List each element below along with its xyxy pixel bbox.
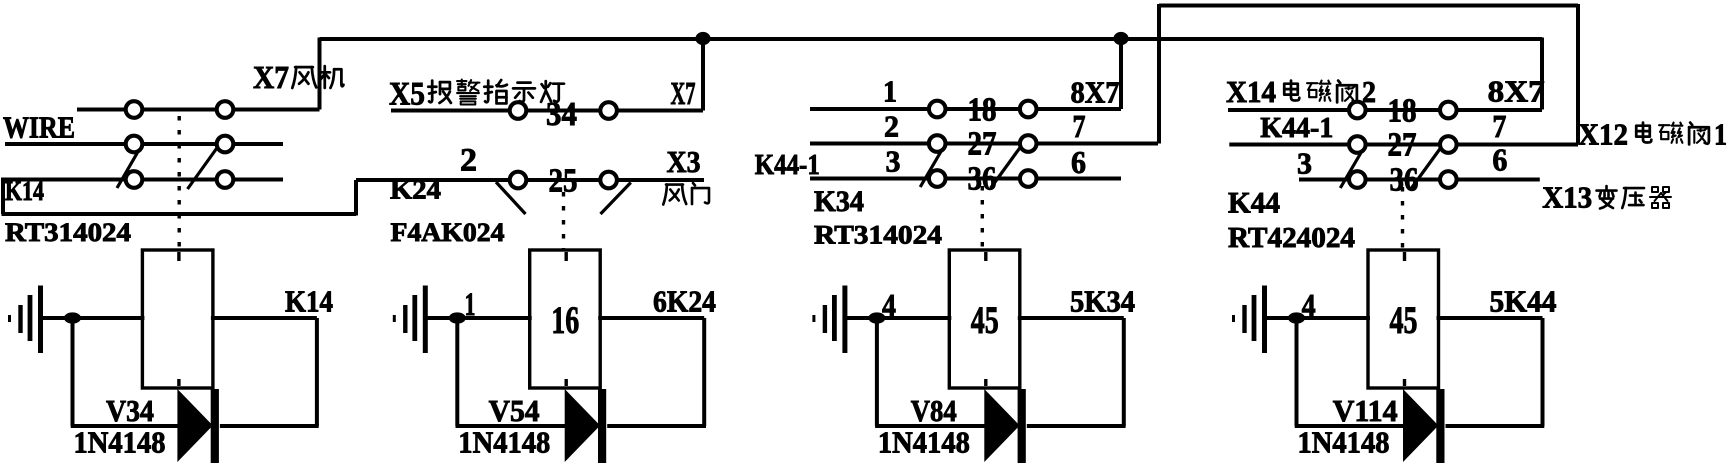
svg-text:1: 1 [1714, 117, 1727, 152]
svg-text:X14: X14 [1226, 74, 1276, 109]
wire K24 top row pin-to-pin [518, 109, 609, 113]
wire ground to coil K44 [1266, 316, 1371, 320]
linkage dashed K14 [177, 116, 180, 250]
wire K44 row2 right to upper bus [1456, 143, 1578, 147]
svg-text:1: 1 [465, 287, 476, 323]
contact pins K44 mid row [1349, 136, 1366, 153]
wire K44 row3 right open end [1456, 178, 1540, 182]
contact pins K24 bottom row [510, 172, 527, 189]
wire K44 mid row pin-to-pin [1357, 143, 1448, 147]
svg-text:K14: K14 [285, 284, 333, 319]
contact K14 movable slant col2 [188, 147, 219, 190]
wire bus-B left drop to K34 contact 27-18 row [1157, 4, 1161, 144]
wire K14 top row pin-to-pin [134, 108, 225, 112]
wire bottom K24 diode anode side [456, 424, 568, 428]
svg-text:2: 2 [460, 143, 477, 179]
wire bus-A drop to K24 contact row (X7) [701, 39, 705, 111]
coil top tick K24 [565, 252, 568, 261]
svg-text:1N4148: 1N4148 [74, 425, 166, 460]
wire right vertical K14 [315, 318, 319, 426]
svg-text:1: 1 [883, 74, 897, 109]
ground K34 [812, 315, 815, 322]
coil bottom tick K24 [565, 379, 568, 386]
svg-text:X12: X12 [1578, 117, 1628, 152]
wire ground to coil K14 [42, 316, 145, 320]
svg-text:3: 3 [886, 144, 901, 179]
svg-text:F4AK024: F4AK024 [391, 218, 505, 247]
relay coil K44 [1368, 250, 1439, 388]
svg-text:K24: K24 [390, 175, 441, 205]
junction node coil K44 left [1288, 312, 1305, 323]
svg-text:6: 6 [1492, 142, 1507, 178]
svg-text:5K44: 5K44 [1490, 284, 1557, 319]
contact pins K44 bot row [1349, 171, 1366, 188]
wire K34 bot row pin-to-pin [937, 177, 1028, 181]
svg-text:K44-1: K44-1 [755, 149, 820, 181]
svg-text:WIRE: WIRE [3, 110, 75, 145]
label damper (风门) [663, 185, 686, 205]
svg-text:1N4148: 1N4148 [1298, 425, 1390, 460]
svg-text:V34: V34 [106, 393, 154, 428]
wire right vertical K44 [1541, 318, 1545, 426]
wire coil K14 right to K14 [211, 316, 317, 320]
wire K34 row1 left [810, 107, 929, 111]
contact K24 movable slant col1 [496, 182, 526, 214]
coil bottom tick K34 [984, 379, 987, 386]
coil top tick K44 [1403, 252, 1406, 261]
contact K24 movable slant col2 [601, 183, 631, 215]
svg-text:34: 34 [546, 96, 577, 133]
wire bottom K14 diode cathode side [220, 424, 319, 428]
svg-text:8X7: 8X7 [1071, 75, 1120, 110]
wire K14 contact top row to bus [77, 108, 320, 112]
svg-text:K44-1: K44-1 [1260, 112, 1333, 144]
coil top tick K34 [984, 252, 987, 261]
wire coil K34 right to 5K34 [1018, 316, 1124, 320]
wire step up to K24 row [354, 180, 358, 216]
svg-text:X3: X3 [667, 144, 701, 179]
junction node coil K24 left [449, 312, 466, 323]
svg-text:RT314024: RT314024 [5, 218, 131, 247]
wire K44 top row pin-to-pin [1357, 108, 1448, 112]
wire K34 row3 left [810, 177, 929, 181]
wire main top bus net 8X7 [320, 37, 1543, 41]
svg-text:X13: X13 [1542, 180, 1592, 215]
linkage dashed K24 [562, 192, 565, 250]
contact pins K34 bot row [929, 170, 946, 187]
wire ground to coil K24 [426, 316, 531, 320]
svg-text:45: 45 [1390, 299, 1418, 342]
wire bottom K34 diode cathode side [1027, 424, 1126, 428]
wire coil K24 right to 6K24 [598, 316, 704, 320]
svg-text:5K34: 5K34 [1070, 284, 1135, 319]
diode V54 1N4148 [566, 392, 599, 460]
svg-text:6: 6 [1071, 144, 1086, 180]
contact K14 movable slant col1 [117, 153, 138, 189]
wire K24 row from step [356, 178, 510, 182]
svg-text:16: 16 [551, 299, 579, 342]
wire bus-A left drop to K14 contact row [318, 38, 322, 110]
contact K44 movable slant col2 [1411, 147, 1442, 189]
wire K34 top row pin-to-pin [937, 107, 1028, 111]
svg-text:RT424024: RT424024 [1228, 223, 1355, 254]
contact pins K34 top row [929, 101, 946, 118]
wire K44 row1 right to bus [1456, 108, 1542, 112]
coil bottom tick K14 [177, 379, 180, 386]
wire coil K44 right to 5K44 [1437, 316, 1543, 320]
contact pins K14 bot row [126, 171, 143, 188]
wire contact 25 to X3 [617, 178, 704, 182]
contact K34 movable slant col2 [991, 146, 1022, 188]
contact K34 movable slant col1 [920, 152, 941, 187]
wire bus-A drop to K34 contact row (8X7) [1119, 39, 1123, 109]
junction on bus-A at 8X7 drop [1113, 32, 1128, 45]
wire K14 contact bottom row [3, 178, 283, 182]
svg-text:3: 3 [1297, 146, 1312, 181]
wire K34 row1 right to bus drop [1036, 107, 1121, 111]
wire K44 row2 left [1229, 143, 1349, 147]
wire top bus net X7-pin7 (upper) [1159, 4, 1578, 8]
contact pins K44 top row [1349, 102, 1366, 119]
wire K44 bot row pin-to-pin [1357, 178, 1448, 182]
wire left vertical K24 [455, 318, 459, 426]
contact K44 movable slant col1 [1340, 153, 1361, 188]
diode V84 1N4148 [985, 392, 1018, 460]
diode V114 1N4148 [1404, 392, 1437, 460]
wire K14 mid row pin-to-pin [134, 142, 225, 146]
wire left vertical K44 [1295, 318, 1299, 426]
svg-text:7: 7 [1073, 108, 1086, 144]
svg-text:V114: V114 [1333, 393, 1398, 428]
wire right vertical K24 [702, 318, 706, 426]
svg-text:K44: K44 [1228, 187, 1280, 220]
wire ground to coil K34 [846, 316, 951, 320]
svg-text:1N4148: 1N4148 [458, 425, 550, 460]
contact pins K14 mid row [126, 136, 143, 153]
ground K44 [1232, 315, 1235, 322]
wire left vertical K34 [875, 318, 879, 426]
wire K34 row2 left [810, 142, 929, 146]
svg-text:8X7: 8X7 [1488, 74, 1545, 109]
wire contact 34 to X7 drop [617, 109, 703, 113]
wire K34 row2 right to upper bus drop [1036, 142, 1158, 146]
wire X5 row to contact 34 [391, 109, 510, 113]
coil top tick K14 [177, 252, 180, 261]
wire left vertical K14 [71, 318, 75, 426]
svg-text:RT314024: RT314024 [814, 221, 942, 250]
svg-text:7: 7 [1492, 108, 1506, 144]
relay coil K14 [142, 250, 213, 388]
svg-text:2: 2 [884, 109, 899, 144]
svg-text:V84: V84 [911, 393, 957, 428]
wire bottom K44 diode cathode side [1446, 424, 1545, 428]
wire K34 row3 right open end [1036, 177, 1121, 181]
wire K44 row3 left [1299, 178, 1349, 182]
relay coil K34 [949, 250, 1020, 388]
svg-text:V54: V54 [489, 393, 540, 428]
linkage dashed K34 [981, 186, 984, 250]
wire bottom K14 diode anode side [71, 424, 181, 428]
wire bottom K44 diode anode side [1295, 424, 1406, 428]
wire right vertical K34 [1122, 318, 1126, 426]
svg-text:6K24: 6K24 [653, 284, 716, 319]
svg-text:45: 45 [971, 299, 999, 342]
wire K14 left loop down [1, 178, 5, 215]
svg-text:X5: X5 [389, 77, 425, 113]
wire bus-A right drop to K44 row 8X7 [1540, 38, 1544, 110]
ground K24 [393, 315, 396, 322]
svg-text:K34: K34 [814, 185, 864, 218]
wire K14 bot row pin-to-pin [134, 178, 225, 182]
wire K44 row1 left [1228, 108, 1349, 112]
contact pins K24 top row [510, 102, 527, 119]
diode V34 1N4148 [178, 392, 211, 460]
contact pins K14 top row [126, 101, 143, 118]
contact pins K34 mid row [929, 135, 946, 152]
wire bus-B right drop to K44 contact row 7 [1576, 4, 1580, 144]
svg-text:X7: X7 [671, 75, 696, 111]
coil bottom tick K44 [1403, 379, 1406, 386]
wire bottom K24 diode cathode side [607, 424, 706, 428]
wire bottom K34 diode anode side [875, 424, 987, 428]
junction node coil K14 left [64, 312, 81, 323]
wire K14 bottom rail to K24 [2, 212, 357, 216]
wire K24 bottom row pin-to-pin [518, 178, 609, 182]
junction on bus-A at X7 drop [695, 32, 710, 45]
linkage dashed K44 [1401, 187, 1404, 250]
wire K34 mid row pin-to-pin [937, 142, 1028, 146]
junction node coil K34 left [868, 312, 885, 323]
svg-text:X7: X7 [253, 59, 289, 95]
wire K14 contact mid row [5, 142, 283, 146]
svg-text:1N4148: 1N4148 [878, 425, 970, 460]
ground K14 [8, 315, 11, 322]
relay coil K24 [530, 250, 601, 388]
